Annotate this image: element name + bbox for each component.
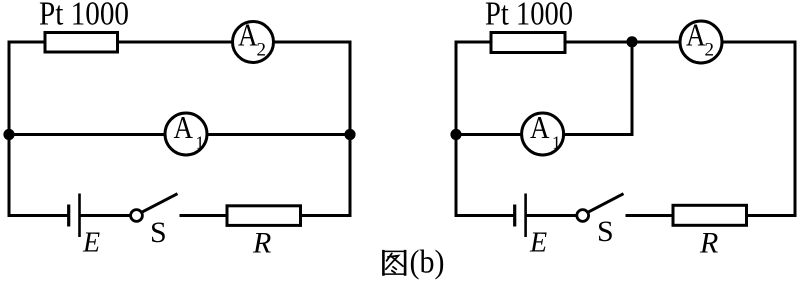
svg-text:2: 2 (705, 39, 715, 60)
svg-text:E: E (529, 228, 547, 259)
battery E (left) (69, 194, 80, 238)
wire: right circuit bottom side (456, 214, 795, 217)
ammeter A1 (left) (165, 110, 207, 155)
junction node (right circuit, top) (626, 36, 637, 47)
resistor R (left) (227, 206, 301, 226)
wire: right circuit left side (455, 41, 458, 218)
wire: right circuit middle branch (456, 133, 632, 136)
svg-text:A: A (238, 17, 258, 52)
ammeter A1 (right) (522, 110, 564, 155)
svg-text:1: 1 (196, 133, 205, 153)
wire: left circuit right side (349, 41, 352, 218)
wire: right circuit right side (794, 41, 797, 218)
svg-text:A: A (686, 17, 706, 52)
svg-text:A: A (530, 110, 550, 145)
resistor Pt 1000 (left) (45, 33, 118, 53)
junction node (left circuit, right) (344, 129, 355, 140)
ammeter A2 (left) (233, 17, 274, 62)
wire: right circuit vertical connector A1 to top (631, 42, 634, 136)
wire: right circuit top side (456, 41, 795, 44)
svg-text:Pt 1000: Pt 1000 (39, 0, 129, 33)
svg-text:A: A (174, 110, 194, 145)
wire: left circuit bottom side (9, 214, 350, 217)
wire: left circuit left side (8, 41, 11, 218)
svg-text:S: S (150, 216, 167, 249)
battery E (right) (515, 194, 526, 238)
switch S (right) (577, 194, 624, 222)
junction node (left circuit, left) (3, 129, 14, 140)
svg-text:E: E (82, 228, 100, 259)
svg-text:R: R (699, 227, 718, 260)
svg-text:Pt 1000: Pt 1000 (485, 0, 573, 33)
ammeter A2 (right) (680, 17, 722, 63)
svg-text:1: 1 (552, 133, 561, 153)
wire: left circuit top side (9, 41, 350, 44)
resistor Pt 1000 (right) (491, 33, 565, 53)
svg-text:(b): (b) (410, 245, 445, 281)
wire: left circuit middle branch (9, 133, 350, 136)
svg-text:2: 2 (257, 39, 267, 60)
caption glyph 图 (drawn) (383, 250, 406, 276)
svg-text:S: S (597, 215, 614, 248)
junction node (right circuit, left) (450, 129, 461, 140)
resistor R (right) (673, 205, 747, 225)
svg-text:R: R (252, 227, 271, 260)
switch S (left) (131, 194, 178, 222)
